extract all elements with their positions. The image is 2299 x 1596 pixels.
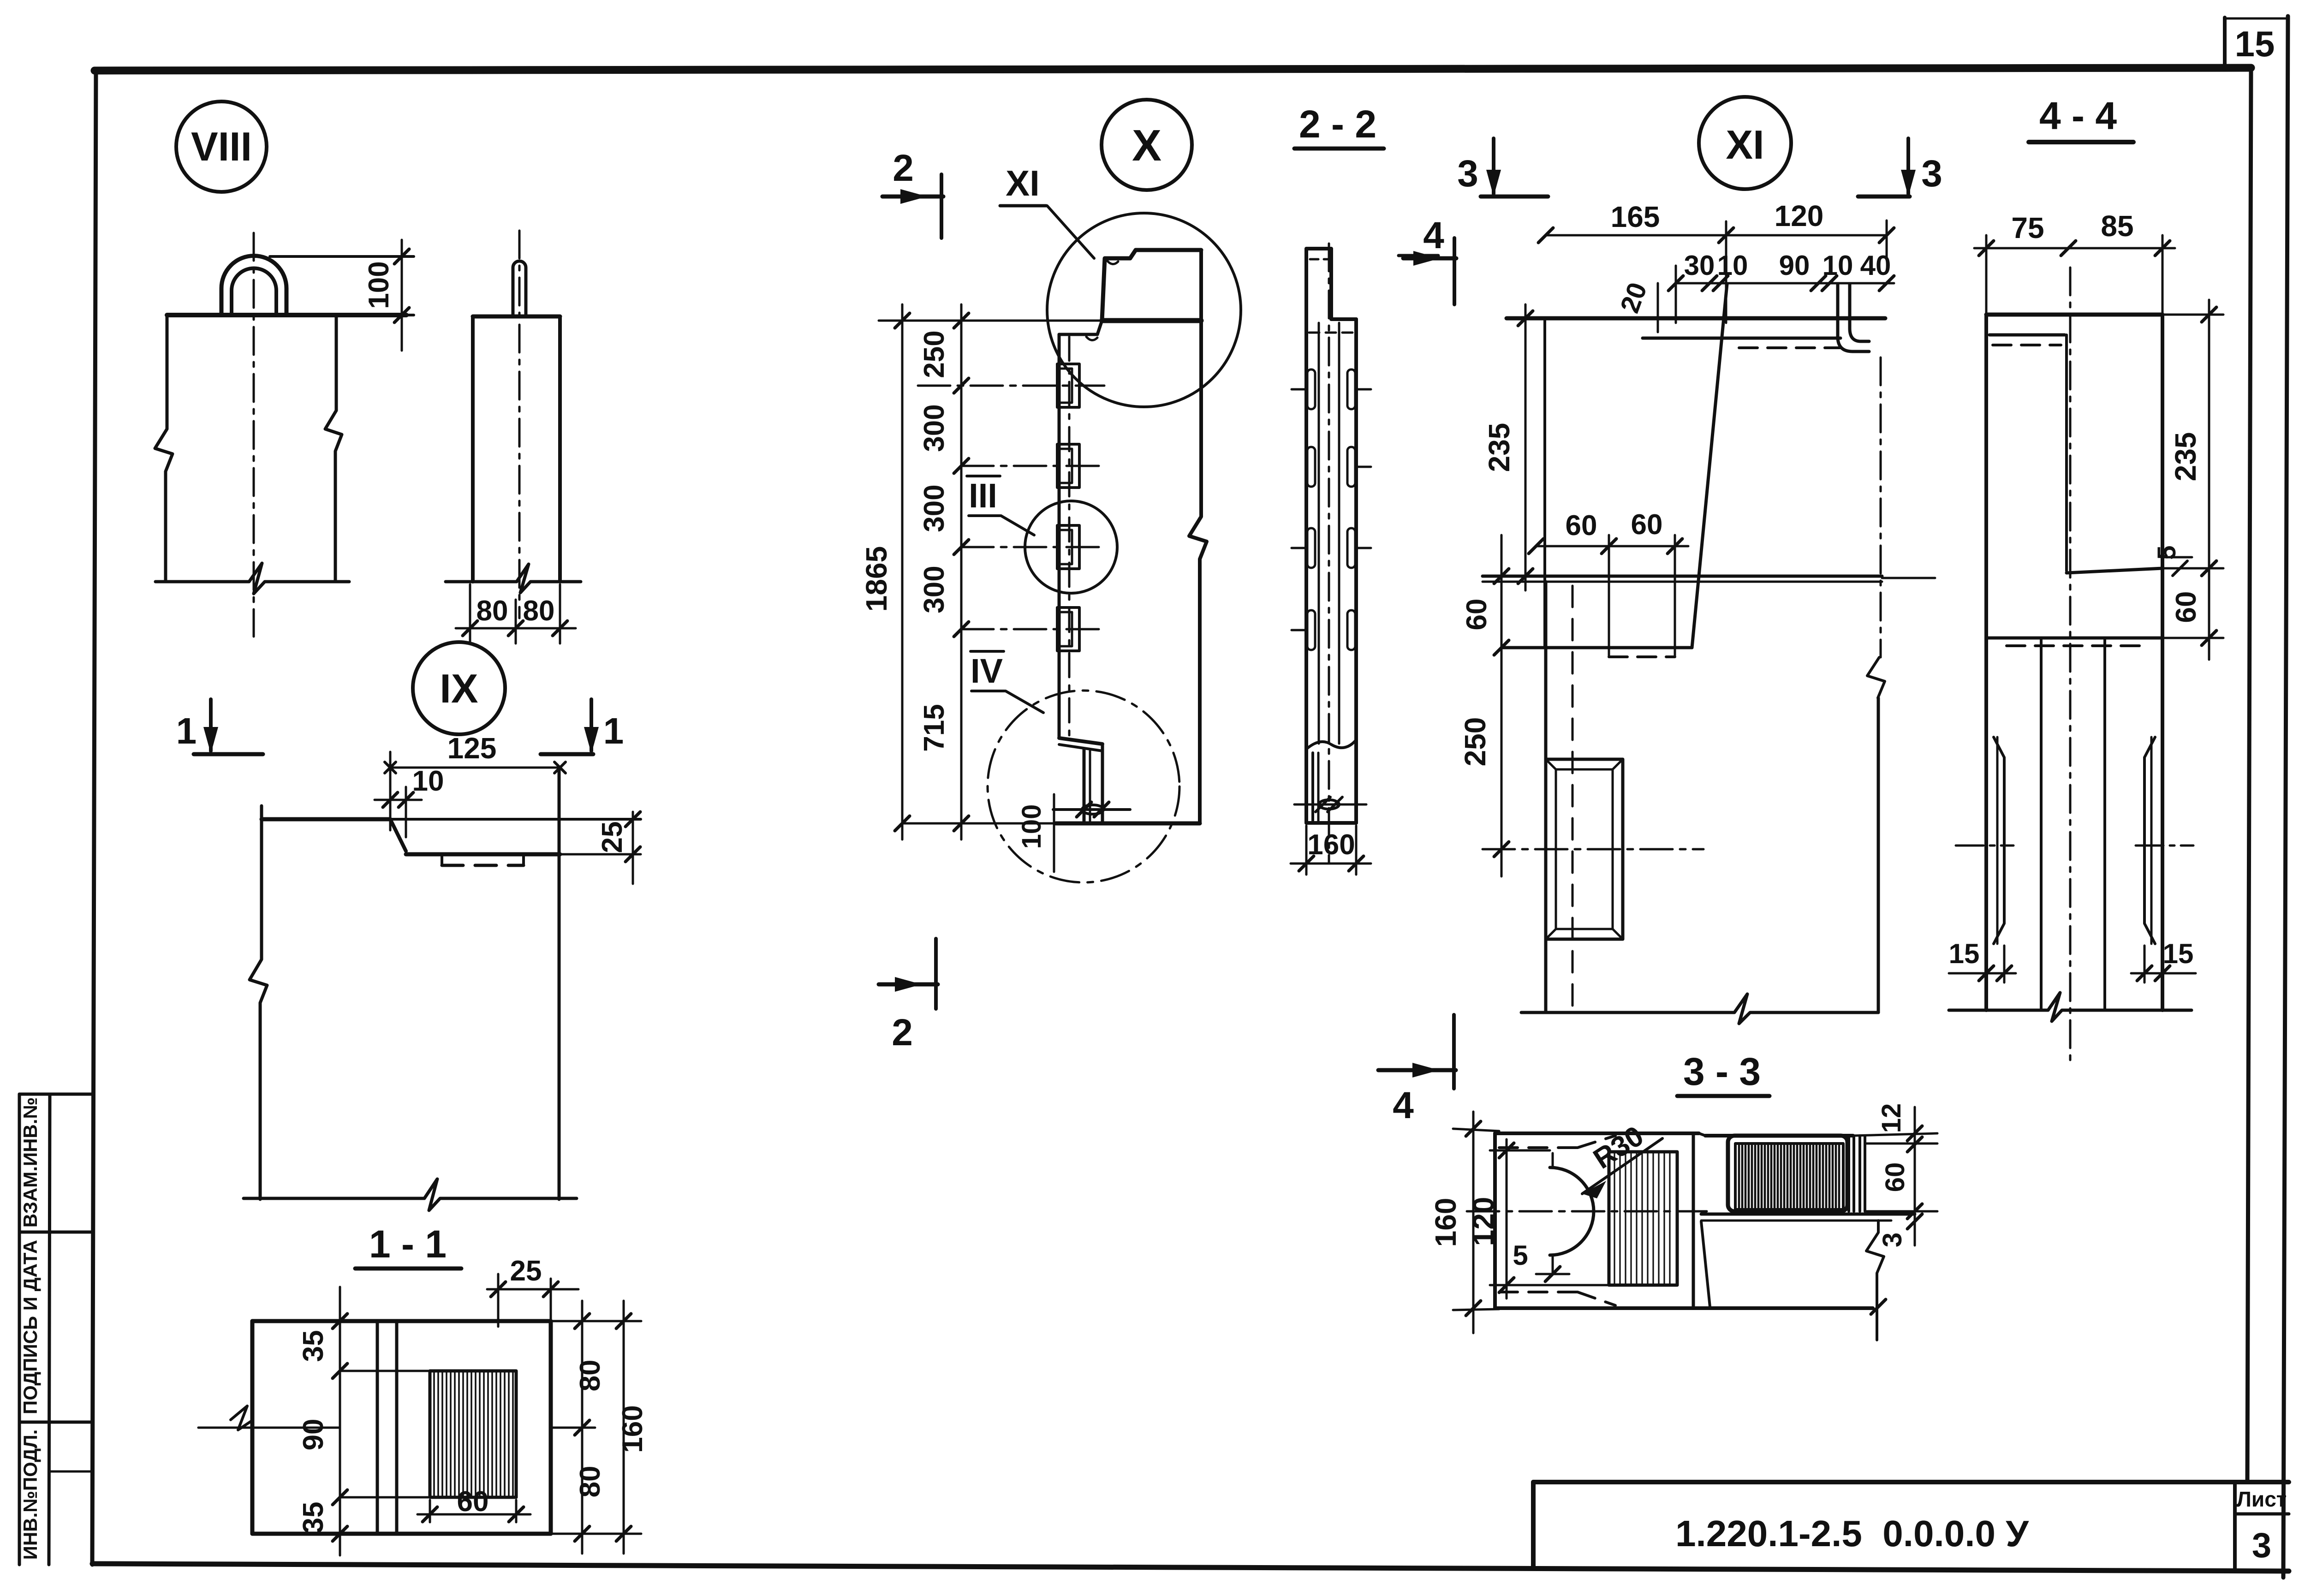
svg-text:715: 715 xyxy=(918,704,950,751)
VIII side view: bottom break line xyxy=(446,564,581,593)
svg-text:60: 60 xyxy=(1631,509,1663,541)
svg-text:250: 250 xyxy=(918,330,950,378)
svg-text:60: 60 xyxy=(1566,510,1597,542)
XI dim 60 60 xyxy=(1529,509,1688,648)
XI keyway pocket xyxy=(1546,759,1623,939)
svg-text:40: 40 xyxy=(1860,250,1891,281)
X hidden centre line of face xyxy=(1068,337,1071,736)
section mark 4 top xyxy=(1403,214,1456,304)
IX slab top edge xyxy=(262,817,641,822)
detail callout label III xyxy=(967,476,1034,535)
VIII elevation: lifting loop xyxy=(221,256,286,315)
3-3 centre line xyxy=(1467,1210,1707,1213)
svg-text:300: 300 xyxy=(918,566,950,613)
3-3 step slant xyxy=(1701,1221,1710,1307)
svg-text:160: 160 xyxy=(1429,1198,1462,1247)
svg-text:15: 15 xyxy=(1949,938,1980,969)
detail circle around top of X xyxy=(1047,213,1241,407)
view label circle IX xyxy=(413,642,505,734)
section 2-2 title xyxy=(1294,102,1384,149)
2-2 body edges xyxy=(1306,319,1356,823)
1-1 outline xyxy=(252,1321,551,1534)
svg-text:2 - 2: 2 - 2 xyxy=(1299,102,1376,146)
VIII side view: centre axis xyxy=(518,231,521,618)
svg-text:1: 1 xyxy=(603,710,624,751)
detail dashed circle IV at foot xyxy=(988,691,1179,882)
XI dim 250 vertical xyxy=(1459,664,1509,876)
4-4 inner recess wall xyxy=(2067,335,2162,573)
title text xyxy=(1675,1513,2029,1554)
detail circle III on notch xyxy=(1025,501,1117,593)
svg-text:X: X xyxy=(1132,121,1161,170)
svg-text:60: 60 xyxy=(1461,599,1493,631)
XI bottom break line xyxy=(1521,994,1878,1024)
svg-text:60: 60 xyxy=(457,1486,489,1518)
4-4 dim 5 xyxy=(2152,545,2192,576)
svg-text:160: 160 xyxy=(1307,829,1355,861)
IX ledge bottom xyxy=(406,852,641,857)
svg-text:120: 120 xyxy=(1775,199,1824,232)
IX left edge with break xyxy=(250,806,267,1199)
X chain dim texts xyxy=(918,330,950,751)
svg-text:IX: IX xyxy=(440,666,478,711)
svg-text:250: 250 xyxy=(1459,717,1492,767)
svg-text:3 - 3: 3 - 3 xyxy=(1683,1050,1761,1093)
VIII elevation: loop top extension line xyxy=(270,255,414,258)
svg-text:1 - 1: 1 - 1 xyxy=(369,1222,447,1266)
XI lower left face xyxy=(1546,582,1572,1012)
VIII side view: column body xyxy=(473,316,560,582)
svg-text:IV: IV xyxy=(971,652,1003,690)
X notch axis ticks xyxy=(918,386,1104,629)
svg-text:ИНВ.№ПОДЛ.: ИНВ.№ПОДЛ. xyxy=(19,1429,41,1560)
section 3-3 title xyxy=(1677,1050,1769,1096)
svg-text:100: 100 xyxy=(363,261,395,309)
svg-text:4: 4 xyxy=(1393,1084,1414,1126)
XI anchor hooks xyxy=(1838,284,1869,351)
title block xyxy=(1533,1482,2289,1571)
4-4 dim 15 right xyxy=(2131,938,2196,983)
svg-text:4: 4 xyxy=(1423,214,1444,256)
IX step bevel xyxy=(390,819,406,851)
3-3 R30 leader xyxy=(1582,1120,1662,1198)
4-4 dim 15 left xyxy=(1949,938,2016,983)
view label circle VIII xyxy=(176,101,267,192)
svg-text:80: 80 xyxy=(523,595,555,627)
section mark 1 left xyxy=(176,699,263,754)
1-1 dim 25 xyxy=(487,1255,578,1327)
svg-text:15: 15 xyxy=(2235,24,2275,64)
IX dim 25 xyxy=(596,812,640,884)
2-2 inner lines xyxy=(1309,244,1353,863)
svg-text:10: 10 xyxy=(1823,250,1853,281)
section 4-4 title xyxy=(2029,94,2133,142)
4-4 top ledge xyxy=(1989,335,2065,345)
frame left border xyxy=(92,71,96,1565)
3-3 key hatched block xyxy=(1609,1152,1677,1285)
svg-text:235: 235 xyxy=(2169,432,2202,482)
3-3 lower edge of right part xyxy=(1701,1214,1915,1221)
svg-text:15: 15 xyxy=(2163,938,2194,969)
svg-text:10: 10 xyxy=(1717,250,1748,281)
3-3 right break edge xyxy=(1866,1221,1886,1340)
X keyway notch 3 xyxy=(1057,525,1079,569)
XI dim 120 xyxy=(1726,199,1894,323)
stamp text ИНВ.№ПОДЛ. xyxy=(19,1429,41,1560)
svg-text:2: 2 xyxy=(892,1012,913,1054)
svg-text:30: 30 xyxy=(1684,250,1715,281)
svg-text:5: 5 xyxy=(1513,1240,1528,1271)
svg-text:80: 80 xyxy=(574,1360,606,1392)
svg-text:80: 80 xyxy=(476,595,508,627)
svg-text:125: 125 xyxy=(447,732,497,765)
2-2 slots row 2 xyxy=(1307,447,1371,487)
svg-text:75: 75 xyxy=(2011,211,2044,244)
svg-text:300: 300 xyxy=(918,484,950,532)
section mark 3 left xyxy=(1457,138,1548,197)
section mark 2 bottom xyxy=(879,939,938,1054)
svg-text:12: 12 xyxy=(1876,1103,1906,1133)
svg-text:XI: XI xyxy=(1726,122,1764,167)
section mark 4 bottom xyxy=(1378,1015,1456,1126)
4-4 side edges xyxy=(1986,315,2162,1010)
svg-text:235: 235 xyxy=(1483,423,1516,472)
XI dim 165 xyxy=(1538,200,1733,243)
IX dim 125 xyxy=(385,732,566,773)
X keyway notch 2 xyxy=(1057,444,1079,488)
view label circle X xyxy=(1102,100,1192,190)
svg-text:85: 85 xyxy=(2101,209,2133,243)
svg-text:VIII: VIII xyxy=(191,124,252,169)
left stamp column xyxy=(19,1094,92,1565)
section mark 2 top xyxy=(882,147,943,238)
IX hidden plate dashes xyxy=(442,854,524,865)
svg-text:25: 25 xyxy=(596,822,628,853)
svg-text:80: 80 xyxy=(574,1466,606,1498)
X left face xyxy=(1058,334,1061,737)
2-2 foot leg xyxy=(1306,753,1356,823)
1-1 left dim chain 35 90 35 xyxy=(298,1287,430,1555)
VIII elevation: centre axis xyxy=(253,233,255,637)
svg-text:ВЗАМ.ИНВ.№: ВЗАМ.ИНВ.№ xyxy=(19,1097,41,1227)
1-1 bottom dim 60 xyxy=(417,1486,530,1522)
4-4 centre axis xyxy=(2069,268,2072,1066)
3-3 dim 5 xyxy=(1513,1240,1569,1281)
page outer right edge xyxy=(2283,16,2288,1578)
stamp text ПОДПИСЬ И ДАТА xyxy=(19,1240,41,1414)
section mark 1 right xyxy=(541,699,624,754)
X notch shoulder below top xyxy=(1059,321,1102,340)
3-3 hidden edges dashed xyxy=(1499,1136,1615,1305)
X keyway notch 4 xyxy=(1057,607,1079,651)
svg-text:35: 35 xyxy=(298,1502,329,1534)
4-4 inner vertical lines xyxy=(2041,638,2105,1010)
X keyway notch 1 xyxy=(1057,364,1079,407)
section mark 3 right xyxy=(1858,138,1942,197)
3-3 right channel hatched block xyxy=(1728,1136,1847,1211)
svg-text:25: 25 xyxy=(510,1255,542,1287)
X dim chain line xyxy=(954,304,969,840)
svg-text:3: 3 xyxy=(1921,153,1942,195)
1-1 key hatched block xyxy=(430,1371,516,1497)
IX dim 10 xyxy=(375,752,444,837)
XI left face upper xyxy=(1543,318,1546,648)
XI top edge xyxy=(1507,316,1885,321)
4-4 dim 75 85 xyxy=(1974,209,2175,318)
frame top border xyxy=(95,68,2251,71)
VIII elevation: dim 100 xyxy=(363,240,409,351)
1-1 left break mark xyxy=(198,1406,340,1430)
X top surface edge xyxy=(960,318,1201,323)
svg-text:3: 3 xyxy=(1457,153,1478,195)
svg-text:3: 3 xyxy=(2252,1526,2271,1565)
3-3 dim 120 xyxy=(1467,1139,1609,1298)
3-3 R30 recess arc xyxy=(1550,1153,1594,1273)
XI dim 235 xyxy=(1483,304,1533,590)
IX right edge xyxy=(558,768,561,1199)
section 1-1 title xyxy=(355,1222,461,1268)
svg-text:10: 10 xyxy=(412,765,444,797)
2-2 foot break line xyxy=(1306,740,1356,749)
4-4 top edge xyxy=(1986,313,2162,317)
svg-text:300: 300 xyxy=(918,404,950,452)
sheet number box 15 xyxy=(2225,18,2288,69)
svg-text:90: 90 xyxy=(1779,250,1810,281)
XI right edge xyxy=(1867,357,1885,1012)
4-4 right dim 235 60 xyxy=(2162,300,2223,660)
svg-text:1865: 1865 xyxy=(860,546,893,612)
detail callout label XI xyxy=(1000,163,1094,258)
svg-text:ПОДПИСЬ И ДАТА: ПОДПИСЬ И ДАТА xyxy=(19,1240,41,1414)
2-2 slots row 4 xyxy=(1292,610,1355,650)
VIII side view: loop end-on pin xyxy=(513,261,526,316)
frame bottom border xyxy=(92,1564,2289,1571)
detail callout label IV xyxy=(971,651,1043,713)
IX bottom break line xyxy=(244,1179,577,1210)
XI taper diagonal xyxy=(1692,284,1727,648)
svg-text:XI: XI xyxy=(1006,163,1040,203)
X right edge with break xyxy=(1189,250,1207,823)
svg-text:III: III xyxy=(969,476,997,515)
X bottom edge xyxy=(902,822,1200,826)
VIII side view: dim 80 80 xyxy=(456,584,576,643)
svg-text:60: 60 xyxy=(1880,1162,1910,1192)
svg-text:165: 165 xyxy=(1611,200,1660,233)
VIII elevation: bottom break line xyxy=(155,563,349,594)
2-2 slots row 3 xyxy=(1292,528,1371,568)
4-4 bottom break line xyxy=(1949,993,2192,1021)
VIII elevation: slab top edge xyxy=(167,313,414,317)
svg-text:4 - 4: 4 - 4 xyxy=(2039,94,2117,137)
X overall dim 1865 line xyxy=(860,304,960,840)
X top stepped profile xyxy=(1102,250,1201,321)
4-4 left slot xyxy=(1956,737,2013,944)
2-2 top tick line xyxy=(1399,254,1438,257)
XI embedded channel xyxy=(1643,338,1840,348)
XI left dim 60 vertical xyxy=(1461,535,1509,664)
svg-text:120: 120 xyxy=(1467,1197,1500,1246)
svg-text:100: 100 xyxy=(1017,804,1047,849)
svg-text:160: 160 xyxy=(617,1405,649,1453)
XI block bottom double line xyxy=(1483,576,1935,582)
1-1 right dim chain 80 80 160 xyxy=(551,1301,649,1554)
3-3 dim 160 xyxy=(1429,1112,1499,1333)
3-3 channel side plates xyxy=(1849,1136,1865,1211)
2-2 dim 160 xyxy=(1291,826,1371,875)
svg-text:2: 2 xyxy=(893,147,914,189)
X foot hole dim 100 xyxy=(1017,794,1130,872)
XI dims 30 10 90 10 40 xyxy=(1668,250,1894,323)
XI lower ledge xyxy=(1501,648,1692,657)
X foot step xyxy=(1059,738,1102,823)
view label circle XI xyxy=(1699,97,1791,189)
XI pocket centre line xyxy=(1483,848,1703,851)
svg-text:1.220.1-2.5 0.0.0.0 У: 1.220.1-2.5 0.0.0.0 У xyxy=(1675,1513,2029,1554)
frame right inner border xyxy=(2247,68,2251,1482)
2-2 slots row 1 xyxy=(1292,369,1371,409)
svg-text:Лист: Лист xyxy=(2237,1487,2287,1511)
3-3 outline left block xyxy=(1495,1133,1873,1308)
svg-text:1: 1 xyxy=(176,710,197,751)
svg-text:90: 90 xyxy=(298,1419,329,1451)
VIII elevation: right edge with break xyxy=(325,315,342,582)
svg-text:60: 60 xyxy=(2170,591,2202,623)
sheet label xyxy=(2237,1487,2287,1565)
XI dim 20 xyxy=(1614,279,1658,332)
3-3 right dim chain 12 60 3 xyxy=(1853,1103,1937,1247)
2-2 top cap xyxy=(1306,249,1356,319)
VIII elevation: left edge with break xyxy=(155,315,173,582)
svg-text:35: 35 xyxy=(298,1330,329,1362)
4-4 right slot xyxy=(2136,737,2193,944)
1-1 inner wall lines xyxy=(377,1321,397,1534)
svg-text:3: 3 xyxy=(1877,1233,1907,1247)
4-4 mid ledge xyxy=(1986,638,2162,646)
2-2 foot hole xyxy=(1294,797,1366,812)
stamp text ВЗАМ.ИНВ.№ xyxy=(19,1097,41,1227)
